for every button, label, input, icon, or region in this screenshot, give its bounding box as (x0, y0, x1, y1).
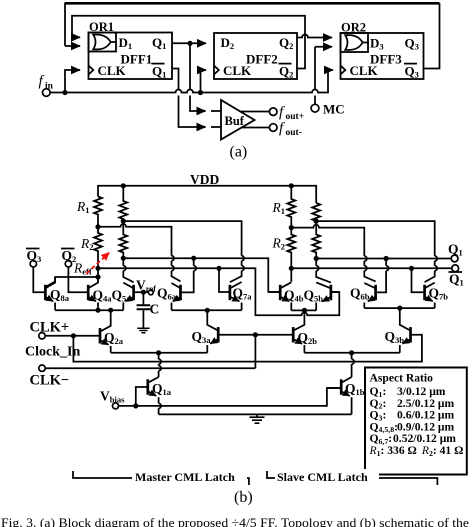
label Slave CML Latch (275, 469, 379, 484)
transistor Q2b (293, 310, 304, 352)
transistor Q8a (45, 277, 55, 310)
wire Q4b base stub (268, 291, 280, 293)
hop bumps Q6a riser (172, 256, 175, 271)
node Q1 junction (187, 41, 192, 46)
svg-text:C: C (150, 302, 160, 317)
wire CLK- to riser (45, 367, 255, 369)
node mid right slave (314, 219, 319, 224)
node CLK+ branch (71, 333, 76, 338)
wire Q2bar to Q4a base (68, 267, 88, 292)
node tail bus Q1a collector (156, 350, 161, 355)
terminal Q2bar input (65, 261, 71, 267)
svg-text:MC: MC (323, 102, 345, 117)
wire inner feedback Q2bar to OR1 (72, 16, 305, 69)
wire slave right output down to Q5b collector with hop (316, 259, 331, 283)
wire OR1 input upper (72, 36, 80, 38)
svg-text:(b): (b) (234, 489, 253, 506)
node latch bus Q3a collector (205, 308, 210, 313)
terminal f_in (43, 89, 51, 97)
svg-text:Master CML Latch: Master CML Latch (135, 470, 235, 484)
wire line Q1 output (316, 258, 451, 260)
wire slave mid-left to Q6b collector (291, 225, 375, 282)
wire MC riser (314, 47, 316, 105)
terminal Q1 output (451, 255, 458, 262)
resistor R1 slave left (287, 186, 295, 228)
svg-text:Buf: Buf (225, 114, 245, 128)
transistor Q7a (230, 282, 242, 310)
terminal CLK+ (39, 333, 45, 339)
transistor Q4b (280, 282, 291, 310)
wire master right output down to Q5a collector with hop (123, 258, 133, 282)
wire master latch emitter bus (172, 309, 242, 311)
bracket slave latch (267, 471, 437, 485)
wire Q1 to D2 (172, 42, 206, 44)
wire OR1 input lower (65, 45, 80, 47)
terminal CLK- (39, 365, 45, 371)
wire Q6b base riser with hop (376, 259, 389, 293)
node mid left master (95, 224, 100, 229)
node slave bus Q2b collector (302, 308, 307, 313)
wire Q1bar to buffer input (172, 69, 206, 128)
node VDD rail R1b (121, 183, 126, 188)
clock chevron DFF3 (341, 66, 346, 75)
wire slave mid-right to Q7b collector (316, 221, 435, 282)
label Q3bar (26, 248, 41, 264)
svg-text:CLK−: CLK− (30, 373, 70, 389)
or-gate OR1 (89, 33, 118, 52)
node mid left slave (289, 225, 294, 230)
wire Q1a base (136, 387, 148, 406)
wire mid-left line to Q6a collector (98, 224, 181, 281)
or-gate OR2 (341, 33, 370, 52)
node slave left output (289, 266, 294, 271)
wire Q5a base to Vref (134, 291, 149, 293)
hop bumps Q7b riser (435, 256, 438, 271)
terminal Q3bar input (30, 261, 36, 267)
annotation red dashed arrow Reff (87, 253, 110, 274)
bracket master latch (73, 471, 249, 485)
node master right output (121, 256, 126, 261)
hop bumps Q6b riser (364, 256, 367, 271)
resistor R1 master left (94, 197, 102, 227)
resistor R2 slave left (287, 228, 295, 282)
label Master CML Latch (132, 469, 247, 484)
wire f_in clock line with hops (50, 70, 333, 93)
terminal f_out+ (269, 108, 277, 116)
node emitter bus Q4a (95, 308, 100, 313)
resistor R2 slave right (312, 221, 320, 258)
svg-text:out+: out+ (286, 112, 305, 122)
node Vbias junction (133, 403, 138, 408)
hop bumps Q7a riser (242, 256, 245, 271)
node slave latch bus Q3b collector (397, 306, 402, 311)
wire Q1b collector riser with hop (352, 353, 355, 377)
label Q1bar pin (152, 64, 167, 80)
node line B Q7a base (216, 266, 221, 271)
transistor Q6a mirrored (172, 283, 181, 310)
node Q7b base riser (409, 266, 414, 271)
transistor Q3a mirrored (207, 310, 218, 353)
svg-text:out-: out- (286, 128, 302, 138)
ground Vref cap (137, 328, 149, 332)
terminal Vref (148, 290, 153, 295)
terminal f_out- (269, 124, 277, 132)
clock chevron DFF1 (89, 66, 94, 75)
svg-text:Slave CML Latch: Slave CML Latch (277, 470, 368, 484)
capacitor C (137, 292, 151, 328)
svg-text:VDD: VDD (190, 172, 219, 187)
transistor Q5a mirrored (123, 283, 133, 311)
wire line B master left output to Q5b base (98, 268, 339, 315)
svg-text:Clock_In: Clock_In (25, 345, 80, 360)
wire CLK- riser to base line (254, 335, 256, 368)
node slave right output (314, 256, 319, 261)
svg-text:(a): (a) (230, 144, 248, 161)
wire line Q1bar output (291, 267, 451, 269)
node Vref (141, 290, 146, 295)
wire base line Q3a to Q2b (218, 334, 293, 336)
transistor Q1a (148, 377, 161, 414)
wire Q3bar to Q8a base (33, 267, 45, 292)
label Q2bar pin (279, 64, 294, 80)
dff U1 DFF1 (89, 33, 173, 80)
transistor Q5b mirrored (316, 282, 331, 310)
wire MC to OR2 (315, 46, 332, 48)
svg-text:R1: 336 ΩR2: 41 Ω: R1: 336 ΩR2: 41 Ω (369, 444, 464, 458)
resistor R1 master right (119, 186, 127, 221)
svg-text:CLK: CLK (223, 63, 252, 78)
wire outer feedback Q3bar to OR1 (65, 3, 440, 69)
node f_in junction (62, 90, 67, 95)
resistor R1 slave right (312, 203, 320, 221)
buffer Buf (221, 100, 255, 140)
wire slave input pair emitter bus (291, 309, 316, 311)
transistor Q2a (100, 310, 111, 353)
wire slave tail bus (304, 352, 399, 354)
wire Q6a base riser with hop (181, 258, 197, 292)
wire Vbias line to Q1b base (119, 388, 342, 406)
wire Q1a collector riser with hops (159, 353, 162, 377)
node mid right master (121, 219, 126, 224)
wire CLK+ branch to Q3b base (73, 335, 422, 362)
clock chevron DFF2 (214, 66, 219, 75)
wire buffer output plus (241, 111, 270, 113)
wire slave latch emitter bus (364, 307, 434, 309)
node line A Q6a base (191, 256, 196, 261)
svg-text:CLK: CLK (350, 63, 379, 78)
resistor R2 master left (94, 227, 102, 282)
node Q3a Q2b base line (253, 332, 258, 337)
svg-text:Fig. 3. (a) Block diagram of: Fig. 3. (a) Block diagram of the propose… (1, 516, 470, 527)
wire CLK1 riser (65, 70, 80, 93)
wire master input pair emitter bus (55, 309, 123, 311)
terminal MC (311, 104, 319, 112)
transistor Q7b (425, 283, 435, 309)
node master left output upper (95, 266, 100, 271)
node emitter bus Q2a collector (108, 308, 113, 313)
label Q1bar output (449, 272, 464, 288)
wire Q7a base drop (219, 268, 230, 292)
transistor Q6b mirrored (364, 283, 375, 308)
node VDD rail slave R1 (289, 183, 294, 188)
transistor Q4a (88, 281, 98, 310)
wire Q8a collector line (45, 277, 98, 287)
wire CLK2 riser (201, 70, 207, 93)
wire ground bus (159, 413, 352, 415)
node master left output lower (95, 274, 100, 279)
wire Q5b base stub (331, 291, 339, 293)
dff U2 DFF2 (214, 33, 297, 79)
svg-text:CLK: CLK (98, 63, 127, 78)
node slave tail Q1b collector (349, 350, 354, 355)
svg-text:in: in (45, 82, 54, 92)
wire Q7b base drop (412, 268, 425, 292)
table aspect ratio box (365, 368, 467, 475)
svg-text:CLK+: CLK+ (30, 320, 70, 336)
label Q3bar pin (404, 64, 419, 80)
wire CLK+ to Q2a base (45, 335, 100, 337)
ground symbol main (250, 414, 265, 423)
terminal Q1bar output (452, 265, 459, 272)
wire Q1b base (327, 387, 341, 389)
wire buffer output minus (242, 127, 269, 129)
wire VDD rail (98, 186, 316, 203)
resistor R2 master right (119, 221, 127, 258)
wire Q1 to buffer input (190, 43, 206, 111)
node DFF2 clock junction (198, 90, 203, 95)
label Q2bar (61, 248, 76, 264)
node Q6b base riser (384, 256, 389, 261)
wire mid-right line to Q7a collector (123, 221, 241, 282)
wire Q2 to OR2 with hop (297, 35, 332, 38)
wire line A master right output to Q4b base (123, 258, 280, 292)
transistor Q3b mirrored (400, 308, 411, 353)
dff U3 DFF3 (341, 33, 424, 79)
svg-text:Aspect Ratio: Aspect Ratio (370, 372, 434, 385)
transistor Q1b (341, 377, 351, 414)
terminal Vbias (113, 403, 119, 409)
wire master tail bus (111, 352, 208, 354)
